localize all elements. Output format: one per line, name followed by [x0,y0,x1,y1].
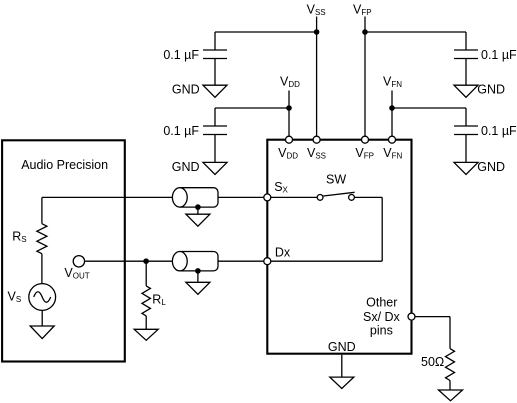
label GND G2 [172,160,200,174]
svg-text:Dx: Dx [275,246,291,260]
label GND G4 [477,160,505,174]
svg-text:0.1 µF: 0.1 µF [163,124,199,138]
svg-text:GND: GND [477,83,505,97]
label Dx [275,246,291,260]
wire top-left rail [215,31,317,33]
ground G9 [330,377,354,388]
svg-text:GND: GND [477,160,505,174]
svg-text:Audio Precision: Audio Precision [21,158,108,172]
label 0.1uF C2 [163,124,199,138]
label SW [326,173,346,187]
wire Vdd vertical [288,91,290,137]
svg-text:SW: SW [326,173,346,187]
label 0.1uF C1 [163,48,199,62]
label Vfn mid [383,75,402,90]
label Vfp top [353,3,372,18]
svg-text:0.1 µF: 0.1 µF [163,48,199,62]
junction dot Vss [314,29,320,35]
label VS [8,290,22,305]
label Vss top [307,3,326,18]
label GND G1 [172,83,200,97]
resistor R50 [446,349,455,390]
label GND U1 [328,340,356,354]
resistor RL [142,261,150,329]
Audio Precision box [2,140,125,361]
pin Dx [264,258,271,265]
wire mid-right rail [392,107,466,109]
capacitor C3 0.1uF top-right [454,32,478,85]
junction dot RL [143,258,149,264]
wire top-right rail [365,31,466,33]
wire Other pin horizontal [415,316,450,318]
wire Dx rail [85,260,266,262]
coax cable bottom [172,252,218,271]
pin Sx [264,194,271,201]
terminal Vout [73,256,84,267]
pin Vfp [362,136,369,143]
label Vout [64,266,89,281]
svg-text:50Ω: 50Ω [421,355,444,369]
label Sx [274,180,288,195]
ground G1 [203,85,227,97]
ground G5 [30,311,54,339]
ground G4 [454,162,478,174]
label Vdd mid [280,75,300,90]
pin Other [408,313,415,320]
wire 50ohm vertical [449,317,451,349]
junction dot Vfn [389,105,395,111]
ground G7 [186,207,210,226]
capacitor C2 0.1uF mid-left [203,108,227,162]
wire internal right vertical [381,197,383,261]
ground G8 [186,271,210,294]
wire Vfn vertical [391,91,393,137]
ground G3 [454,85,478,97]
wire internal bottom [267,260,382,262]
svg-text:GND: GND [328,340,356,354]
pin Vss [313,136,320,143]
IC box U1 [267,140,411,354]
coax cable top [172,188,218,207]
label Vfn pin [383,146,402,161]
junction dot coax top [195,204,201,210]
svg-text:Other: Other [366,296,397,310]
junction dot coax bottom [195,268,201,274]
label 0.1uF C3 [481,48,517,62]
svg-text:0.1 µF: 0.1 µF [481,48,517,62]
capacitor C4 0.1uF mid-right [454,108,478,162]
svg-text:Sx/ Dx: Sx/ Dx [363,310,401,324]
wire mid-left rail [215,107,289,109]
resistor RS [37,197,47,283]
junction dot Vdd [286,105,292,111]
ground G10 [439,390,463,401]
label Vdd pin [278,146,298,161]
ground G2 [203,162,227,174]
pin Vdd [286,136,293,143]
svg-text:0.1 µF: 0.1 µF [481,124,517,138]
label RL [152,293,166,308]
ground G6 [134,329,158,340]
capacitor C1 0.1uF top-left [203,32,227,85]
wire Sx rail [42,196,317,198]
label Vfp pin [355,146,374,161]
junction dot Vfp [362,29,368,35]
svg-text:pins: pins [370,324,393,338]
label GND G3 [477,83,505,97]
svg-text:GND: GND [172,83,200,97]
pin Vfn [389,136,396,143]
source VS [29,284,56,311]
label Other Sx Dx pins [363,296,401,338]
svg-text:GND: GND [172,160,200,174]
label RS [12,230,26,245]
wire Vss vertical [316,17,318,137]
label Audio Precision [21,158,108,172]
wire Vfp vertical [364,17,366,137]
wire GND bottom [341,355,343,377]
switch SW [317,192,382,200]
label Vss pin [307,146,326,161]
label 50ohm [421,355,444,369]
label 0.1uF C4 [481,124,517,138]
